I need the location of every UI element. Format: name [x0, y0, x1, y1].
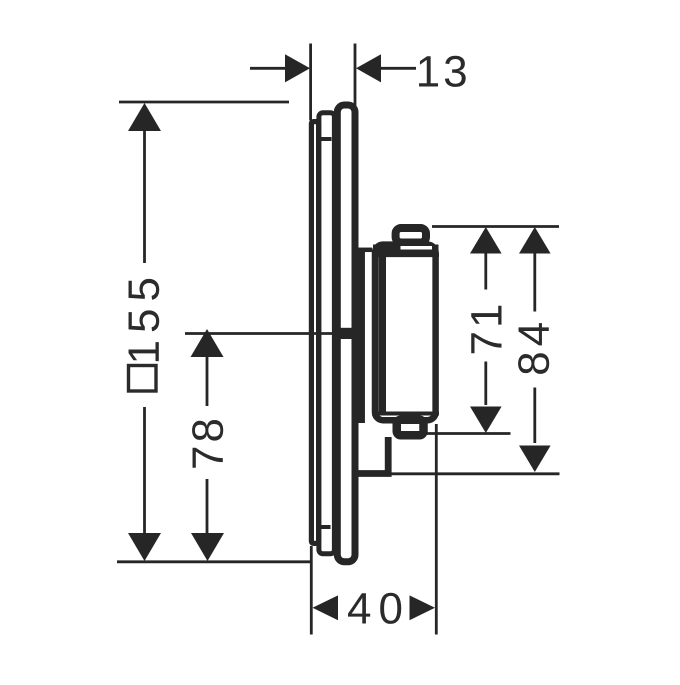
label 40	[348, 593, 401, 624]
dim 13 : left lead line	[250, 67, 287, 70]
handle inner back line	[378, 256, 386, 414]
dim 155 : top extension line	[119, 101, 289, 104]
label 71	[471, 306, 501, 354]
lower housing	[356, 437, 388, 474]
dim 13 : right extension line	[354, 44, 357, 107]
carrier clip tick top	[321, 137, 332, 141]
handle cap seam bottom	[372, 412, 439, 416]
dim 155 : dimension line lower	[143, 407, 146, 535]
dim 78 : top extension line	[185, 332, 333, 335]
dim 40 : right arrow	[410, 595, 436, 620]
cartridge sleeve line	[358, 248, 365, 423]
dim 13 : right lead line	[379, 67, 416, 70]
handle top edge thick bar	[373, 245, 439, 254]
dim 78 : dimension line upper	[206, 356, 209, 406]
dim 71 : dimension line lower	[484, 362, 487, 406]
label 84	[518, 323, 549, 374]
knob base white notch	[401, 246, 433, 250]
handle knob	[396, 228, 426, 243]
dim 40 : right extension line	[435, 424, 438, 635]
dim 78 : top arrow	[191, 329, 224, 357]
handle body	[375, 245, 436, 421]
dim 13 : left extension line	[309, 44, 312, 121]
dim 71 : dimension line upper	[484, 253, 487, 290]
carrier clip tick bottom	[317, 525, 331, 529]
dim 40 : left arrow	[313, 595, 339, 620]
dim 84 : dimension line upper	[533, 253, 536, 312]
label 78	[192, 420, 223, 468]
label 13	[419, 56, 466, 87]
carrier plate M	[319, 113, 335, 554]
dim 84 : bottom arrow	[519, 446, 551, 473]
dim 84 : bottom extension line	[359, 472, 560, 475]
dim 71 : bottom arrow	[470, 407, 502, 434]
handle cap seam top	[372, 253, 439, 257]
dim 71 : bottom extension line	[425, 432, 511, 435]
dim 71/84 : top extension line	[432, 225, 559, 228]
dim 78 : bottom arrow	[191, 533, 224, 561]
dim 155 : dimension line upper	[143, 130, 146, 263]
dim 155/78 : bottom extension line	[117, 560, 310, 563]
dim 40 : left extension line	[310, 546, 313, 635]
seal plate S (wall side)	[311, 122, 318, 544]
collar top line	[356, 248, 372, 253]
dim 71 : top arrow	[470, 227, 502, 254]
dim 13 : left arrow	[285, 54, 310, 82]
label 155	[129, 279, 160, 361]
dim 84 : dimension line lower	[533, 388, 536, 444]
label square symbol of 155	[129, 366, 157, 392]
dim 78 : dimension line lower	[206, 479, 209, 535]
dim 155 : bottom arrow	[128, 533, 161, 561]
dim 13 : right arrow	[356, 54, 381, 82]
dim 84 : top arrow	[519, 227, 551, 254]
dim 155 : top arrow	[128, 103, 161, 131]
handle stem (bottom)	[397, 420, 424, 436]
escutcheon mid clip band	[341, 328, 352, 339]
escutcheon E	[337, 105, 355, 562]
